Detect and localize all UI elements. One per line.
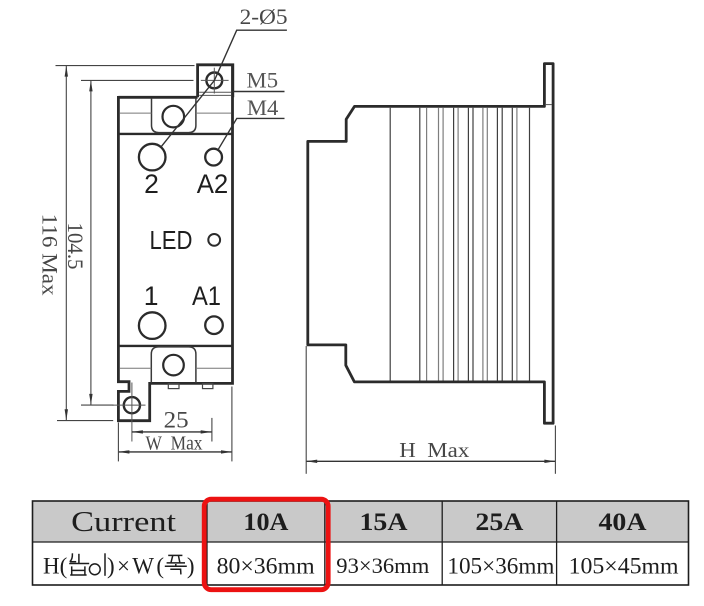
top terminal recess [152,98,196,133]
svg-text:M4: M4 [247,95,279,120]
svg-text:116 Max: 116 Max [38,214,63,296]
top tab thread lines [199,92,231,95]
svg-text:25A: 25A [475,509,523,536]
svg-text:A1: A1 [192,281,221,311]
svg-text:)×W(: )×W( [107,554,164,579]
hangul pok [165,555,187,574]
svg-text:M5: M5 [247,68,279,93]
svg-text:H(: H( [43,554,67,579]
bottom mounting hole (phi 5) [113,383,146,442]
extension line top hole center [81,79,194,81]
extension line top tab [56,65,195,67]
LED indicator [208,234,220,246]
svg-text:93×36mm: 93×36mm [336,553,429,578]
terminal A1 hole [205,316,223,334]
svg-text:25: 25 [164,408,189,433]
svg-text:104.5: 104.5 [63,223,88,270]
svg-text:1: 1 [144,281,159,311]
svg-text:80×36mm: 80×36mm [217,554,315,579]
side view outline [308,64,553,424]
base feet [168,384,213,389]
note 2-diam5 [161,4,288,147]
extension line bottom hole center [81,404,114,406]
dimension W Max [118,387,232,462]
svg-text:): ) [187,554,195,579]
highlight box 10A column [204,499,328,590]
svg-text:2-Ø5: 2-Ø5 [240,4,288,29]
svg-text:105×36mm: 105×36mm [447,554,554,579]
svg-text:Current: Current [71,506,176,538]
dimension 25 [132,408,212,442]
top mounting hole (phi 5) [201,68,229,94]
svg-text:A2: A2 [197,169,229,199]
terminal A2 hole [205,149,222,166]
svg-text:LED: LED [150,225,193,255]
dimension 116 Max [38,66,68,421]
svg-text:15A: 15A [360,509,408,536]
terminal 1 hole [139,312,166,339]
top cover line [120,112,231,114]
heatsink fin boundary [529,108,531,381]
svg-text:105×45mm: 105×45mm [569,554,679,579]
dimension H Max [306,346,555,474]
bottom terminal screw [163,355,184,376]
terminal 2 hole [139,144,166,171]
dimension 104.5 [63,80,92,405]
bottom terminal recess [151,347,196,383]
extension line bottom tab [57,420,113,422]
svg-text:40A: 40A [599,509,647,536]
flange joint line [546,104,552,106]
note M4 [218,95,285,150]
row label H x W [43,554,195,579]
bottom terminal separator [118,345,232,347]
svg-text:H Max: H Max [399,438,470,462]
svg-text:10A: 10A [243,509,288,536]
top terminal screw [163,106,185,128]
front view body outline [118,65,232,421]
note M5 [233,68,285,93]
svg-text:2: 2 [144,169,159,199]
heatsink fins [390,108,517,381]
table grid [33,501,689,585]
bottom cover line [120,367,231,369]
top terminal separator [118,133,232,135]
hangul i [89,553,105,576]
hangul nop [69,553,89,575]
